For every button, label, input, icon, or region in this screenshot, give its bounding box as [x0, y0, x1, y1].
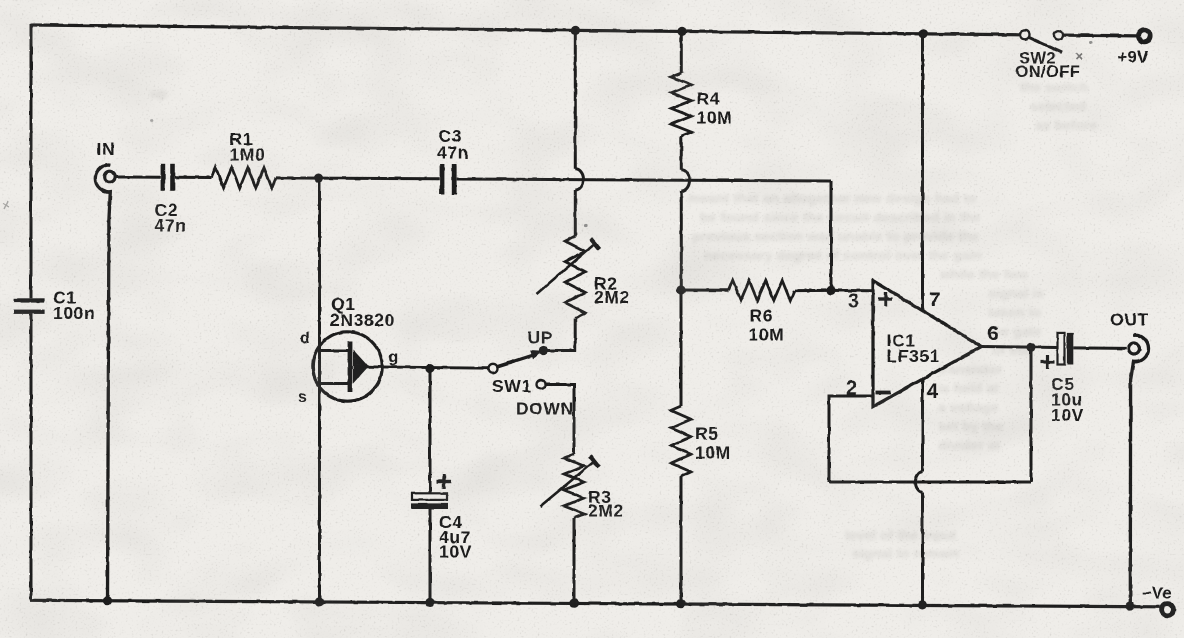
wire op-amp output to C5	[982, 347, 1058, 348]
transistor Q1 gate arrow	[353, 350, 369, 384]
resistor R3	[564, 454, 584, 518]
switch SW1 DOWN contact	[537, 380, 546, 389]
speck left margin	[3, 201, 9, 209]
node SW1 UP contact	[539, 346, 548, 355]
switch SW2 pole	[1021, 30, 1030, 39]
node junction R5 to bottom rail	[676, 599, 685, 608]
wire top supply rail	[32, 25, 1021, 35]
wire pin3 node to op-amp	[831, 289, 874, 292]
resistor R6	[729, 280, 795, 300]
wire R5 to bottom rail	[680, 476, 683, 603]
switch SW1 lever	[497, 355, 533, 366]
wire hop to bottom rail	[921, 493, 924, 605]
capacitor C5 plate left	[1058, 333, 1065, 365]
wire top rail to R4	[680, 31, 683, 73]
resistor R3 wiper arrow	[540, 461, 595, 506]
terminal +9V	[1139, 30, 1151, 42]
wire UP contact to R2 branch	[544, 349, 577, 352]
speck near SW2	[1076, 53, 1082, 59]
terminal OUT	[1129, 343, 1140, 354]
wire SW2 to +9V terminal	[1063, 33, 1138, 37]
wire gate node to C4	[429, 369, 432, 494]
wire top rail to pin 7	[921, 34, 924, 310]
node junction source to bottom rail	[315, 597, 324, 606]
speck near IN	[151, 119, 154, 122]
capacitor C3 plate right	[452, 164, 457, 195]
wire pin 4 to hop	[921, 380, 924, 472]
capacitor C1 plate bottom	[14, 310, 45, 314]
wire drain-source branch	[318, 178, 321, 602]
capacitor C4 plate bottom	[411, 503, 448, 509]
wire C4 to bottom rail	[429, 509, 432, 602]
resistor R2 wiper arrow	[537, 244, 596, 294]
capacitor C2 plate left	[161, 164, 166, 191]
node junction output	[1026, 343, 1035, 352]
transistor Q1 body	[313, 332, 382, 401]
switch SW2 lever	[1029, 37, 1062, 52]
op-amp IC1 triangle	[873, 281, 982, 407]
transistor Q1 drain stub	[321, 349, 349, 352]
resistor R1	[212, 168, 277, 188]
op-amp plus input symbol	[879, 297, 893, 300]
wire signal line R1 to C3	[276, 176, 439, 180]
transistor Q1 channel bar	[348, 342, 353, 393]
wire hop over feedback at supply branch	[915, 472, 922, 493]
wire OUT terminal drop	[1130, 335, 1148, 606]
wire hop to R6 node	[680, 191, 683, 290]
node junction C4 to bottom rail	[425, 598, 434, 607]
node junction IN drop to bottom rail	[103, 596, 112, 605]
op-amp minus input symbol	[876, 391, 891, 395]
wire corner drop to pin 3 node	[830, 181, 833, 290]
node junction gate/C4	[425, 364, 434, 373]
wire DOWN contact to R3 branch	[546, 383, 576, 386]
capacitor C2 plate right	[170, 164, 175, 191]
capacitor C4 plate top	[412, 493, 447, 500]
wire signal line IN to C2	[117, 176, 161, 179]
wire R6 node to R5	[680, 290, 683, 406]
speck above R2	[584, 224, 587, 227]
wire IN terminal drop	[95, 165, 111, 601]
wire R6 node to zigzag	[681, 289, 729, 292]
node junction OUT drop bottom rail	[1125, 601, 1134, 610]
node junction top rail R4 branch	[677, 27, 686, 36]
terminal IN	[104, 171, 115, 182]
node junction signal/drain	[314, 174, 323, 183]
wire R6 to pin3 node	[795, 289, 832, 292]
capacitor C5 plate right	[1067, 333, 1073, 365]
node junction R6 left	[676, 285, 685, 294]
node junction top rail supply branch	[918, 29, 927, 38]
wire C5 to OUT terminal	[1073, 346, 1126, 350]
wire bottom supply rail	[30, 600, 1160, 607]
transistor Q1 source stub	[321, 382, 349, 385]
capacitor C3 plate left	[440, 164, 445, 195]
resistor R2	[565, 236, 585, 318]
wire hop over signal line at R4 branch	[681, 170, 689, 191]
capacitor C1 plate top	[14, 298, 45, 302]
ghost print-through text	[150, 79, 1097, 561]
node junction supply branch bottom rail	[918, 600, 927, 609]
wire hop over signal line at R2 branch	[575, 169, 583, 190]
wire feedback bottom	[829, 481, 1031, 484]
node junction pin 3	[826, 286, 835, 295]
resistor R5	[671, 406, 691, 476]
wire R4 to hop	[680, 136, 683, 170]
wire gate to SW1	[366, 367, 488, 368]
wire R3 to bottom rail	[573, 518, 576, 603]
capacitor C4 polarity plus	[437, 480, 452, 483]
wire left border C1 branch upper	[30, 24, 33, 299]
switch SW1 pole	[489, 364, 498, 373]
wire left border C1 branch lower	[30, 314, 33, 600]
wire top rail to hop	[574, 30, 577, 168]
wire feedback rise to output node	[1030, 347, 1033, 482]
wire signal line C3 to corner	[457, 179, 831, 181]
resistor R4	[671, 73, 691, 136]
wire hop to R2	[574, 190, 577, 236]
wire R2 to UP contact corner	[574, 318, 577, 352]
node junction R3 to bottom rail	[569, 599, 578, 608]
node junction top rail R2 branch	[571, 26, 580, 35]
wire DOWN corner to R3	[573, 383, 576, 454]
wire pin 2 stub	[829, 396, 874, 482]
wire signal line C2 to R1	[175, 176, 212, 179]
capacitor C5 polarity plus	[1041, 360, 1055, 363]
switch SW2 contact	[1054, 31, 1063, 40]
terminal -Ve	[1162, 604, 1174, 616]
